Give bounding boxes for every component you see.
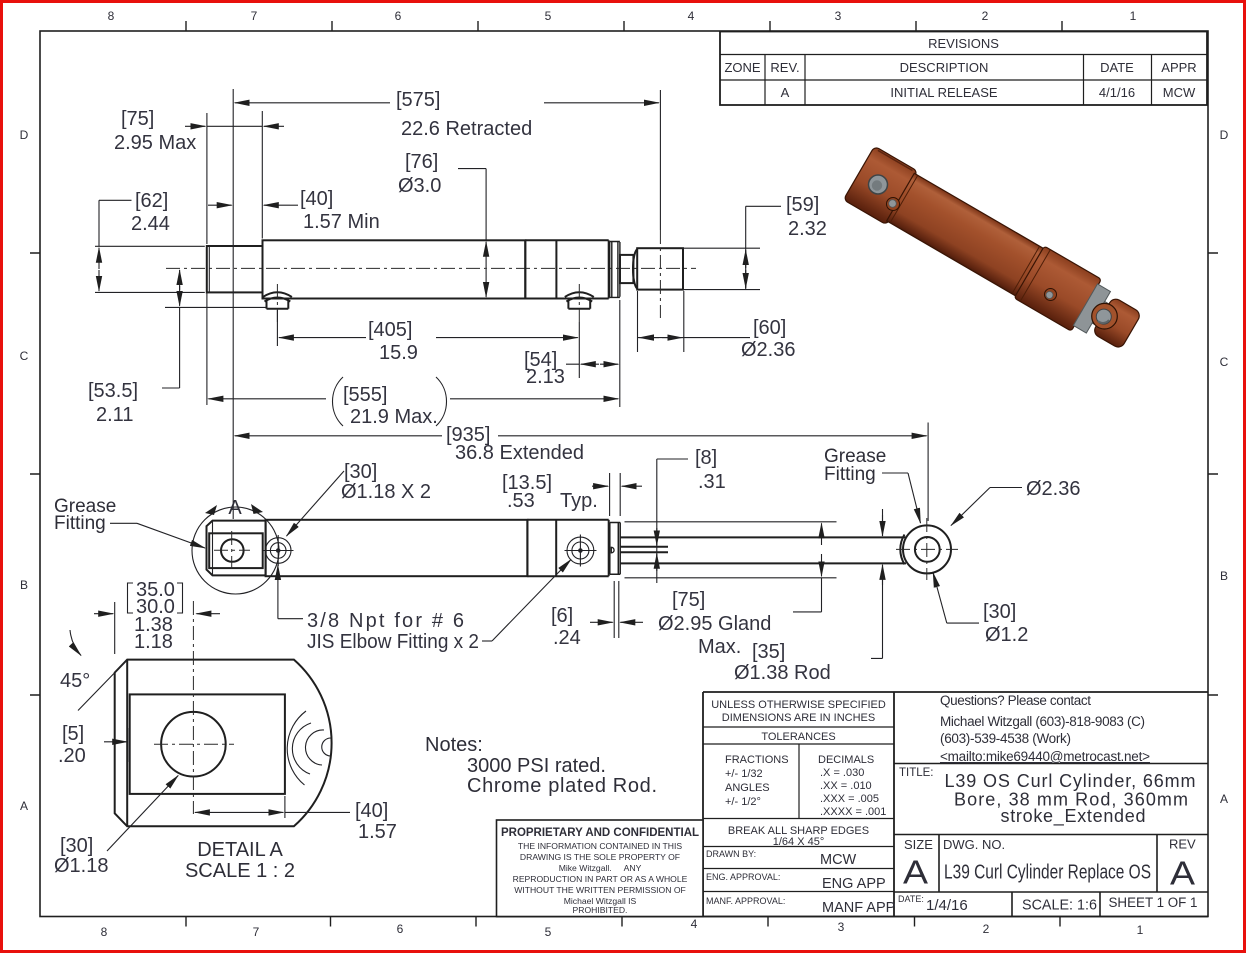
svg-text:<mailto:mike69440@metrocast.ne: <mailto:mike69440@metrocast.net> — [940, 749, 1150, 764]
dimension [935] 36.8 Extended — [235, 423, 928, 522]
port fitting right — [567, 537, 594, 564]
svg-text:D: D — [20, 128, 29, 142]
svg-text:C: C — [1220, 355, 1229, 369]
grease boss left — [263, 292, 292, 308]
svg-text:PROHIBITED.: PROHIBITED. — [573, 905, 628, 915]
3d eye hub — [1092, 297, 1142, 350]
3d gland — [1014, 246, 1101, 331]
grease port arcs — [287, 711, 306, 785]
svg-text:4: 4 — [691, 917, 698, 931]
svg-text:3: 3 — [835, 9, 842, 23]
barrel — [263, 240, 526, 298]
svg-text:Chrome plated Rod.: Chrome plated Rod. — [467, 775, 657, 797]
dimension (555) 21.9 Max — [207, 292, 618, 428]
svg-text:+/- 1/32: +/- 1/32 — [725, 768, 763, 780]
contact block — [940, 693, 1150, 764]
approvals — [706, 849, 895, 916]
svg-text:1/64 X 45°: 1/64 X 45° — [773, 836, 825, 848]
svg-text:TITLE:: TITLE: — [899, 767, 934, 779]
svg-text:1/4/16: 1/4/16 — [926, 897, 968, 914]
svg-text:[60]: [60] — [753, 317, 786, 339]
title block — [497, 692, 1209, 917]
dimension 3/8 Npt leaders — [278, 560, 571, 654]
port fitting left — [265, 538, 291, 564]
svg-text:[8]: [8] — [695, 447, 717, 469]
svg-text:REV: REV — [1169, 837, 1196, 852]
svg-text:L39 Curl Cylinder Replace OS: L39 Curl Cylinder Replace OS — [944, 862, 1151, 884]
svg-text:[35]: [35] — [752, 641, 785, 663]
svg-text:[40]: [40] — [300, 188, 333, 210]
svg-text:Ø1.18 X 2: Ø1.18 X 2 — [341, 481, 431, 503]
dimension [6] .24 — [551, 581, 643, 649]
svg-text:L39 OS Curl Cylinder, 66mm: L39 OS Curl Cylinder, 66mm — [945, 771, 1196, 791]
svg-text:JIS Elbow Fitting x 2: JIS Elbow Fitting x 2 — [307, 631, 479, 653]
svg-text:3: 3 — [838, 920, 845, 934]
svg-text:+/- 1/2°: +/- 1/2° — [725, 796, 761, 808]
notes — [425, 734, 657, 797]
svg-text:Fitting: Fitting — [54, 513, 106, 534]
svg-text:REV.: REV. — [770, 60, 799, 75]
dimension [40] 1.57 detail — [195, 796, 397, 843]
rod eye block — [637, 248, 683, 289]
svg-text:Ø2.36: Ø2.36 — [1026, 478, 1080, 500]
grease boss left centerline — [276, 284, 278, 322]
dimension [13.5] .53 Typ — [502, 472, 642, 516]
svg-text:MCW: MCW — [1163, 85, 1196, 100]
dimension [5] .20 — [58, 723, 129, 767]
svg-text:ANGLES: ANGLES — [725, 782, 770, 794]
dimension [53.5] 2.11 — [88, 270, 266, 426]
svg-text:[59]: [59] — [786, 194, 819, 216]
zone numbers bottom — [101, 917, 1144, 939]
retainer rings — [610, 242, 620, 298]
svg-text:INITIAL RELEASE: INITIAL RELEASE — [890, 85, 997, 100]
svg-text:Questions? Please contact: Questions? Please contact — [940, 693, 1091, 708]
svg-text:2.32: 2.32 — [788, 218, 827, 240]
svg-text:.XXX = .005: .XXX = .005 — [820, 793, 879, 805]
svg-text:A: A — [1220, 792, 1228, 806]
dimension [62] 2.44 — [95, 190, 205, 292]
clevis slot — [209, 533, 263, 568]
svg-text:.XXXX = .001: .XXXX = .001 — [820, 806, 886, 818]
eye centerlines — [900, 535, 904, 565]
svg-text:FRACTIONS: FRACTIONS — [725, 754, 789, 766]
svg-text:.31: .31 — [698, 471, 726, 493]
svg-text:REVISIONS: REVISIONS — [928, 36, 999, 51]
svg-text:A: A — [1170, 855, 1195, 892]
eye fillet arc — [633, 249, 637, 289]
zone ticks top — [186, 21, 1062, 31]
svg-text:Ø3.0: Ø3.0 — [398, 175, 441, 197]
detail arc arrows — [205, 505, 217, 515]
grease fitting label left — [54, 496, 205, 548]
svg-text:MCW: MCW — [820, 852, 857, 868]
svg-text:2.95 Max: 2.95 Max — [114, 132, 196, 154]
svg-text:[76]: [76] — [405, 151, 438, 173]
3d gland grease fitting — [1045, 289, 1057, 301]
dimension [30] dia 1.18 X 2 — [287, 461, 432, 536]
svg-text:8: 8 — [101, 925, 108, 939]
pin hole — [161, 712, 226, 777]
svg-text:DECIMALS: DECIMALS — [818, 754, 874, 766]
barrel section lines — [527, 520, 608, 576]
svg-text:SHEET 1 OF 1: SHEET 1 OF 1 — [1109, 895, 1198, 910]
svg-text:SIZE: SIZE — [904, 837, 933, 852]
hole centerline vertical — [192, 601, 194, 814]
svg-text:TOLERANCES: TOLERANCES — [761, 731, 835, 743]
dimension [405] 15.9 — [277, 310, 579, 378]
dimension [75] gland max — [625, 522, 837, 658]
dimension [8] .31 — [657, 447, 726, 583]
3d clevis slot shadow — [878, 150, 913, 170]
gland block extended — [608, 520, 610, 576]
svg-text:A: A — [228, 497, 242, 519]
detail circle A — [192, 507, 279, 594]
ring notch — [611, 547, 614, 553]
svg-text:MANF APP: MANF APP — [822, 900, 895, 916]
gland block — [608, 240, 610, 298]
size / dwg no / rev — [898, 837, 1198, 915]
svg-text:[30]: [30] — [344, 461, 377, 483]
svg-text:[405]: [405] — [368, 319, 412, 341]
svg-text:1.57: 1.57 — [358, 821, 397, 843]
svg-text:Ø1.18: Ø1.18 — [54, 855, 108, 877]
centerline — [166, 267, 696, 269]
revisions table — [720, 32, 1207, 106]
detail caption — [185, 839, 295, 882]
chamfer inner line — [126, 660, 128, 827]
svg-text:2: 2 — [982, 9, 989, 23]
eye vertical centerline — [659, 230, 661, 318]
svg-text:Notes:: Notes: — [425, 734, 483, 756]
svg-text:Fitting: Fitting — [824, 464, 876, 485]
svg-text:15.9: 15.9 — [379, 342, 418, 364]
zone ticks left — [30, 253, 40, 695]
svg-text:Max.: Max. — [698, 636, 741, 658]
svg-text:Mike Witzgall. ANY: Mike Witzgall. ANY — [559, 863, 642, 873]
svg-text:[75]: [75] — [672, 589, 705, 611]
svg-text:1: 1 — [1130, 9, 1137, 23]
svg-text:21.9 Max.: 21.9 Max. — [350, 406, 438, 428]
svg-text:ENG. APPROVAL:: ENG. APPROVAL: — [706, 872, 780, 882]
zone numbers top — [108, 9, 1137, 23]
svg-text:[575]: [575] — [396, 89, 440, 111]
svg-text:5: 5 — [545, 925, 552, 939]
svg-text:2.13: 2.13 — [526, 366, 565, 388]
dimension [59] 2.32 — [683, 194, 827, 290]
svg-text:A: A — [781, 85, 790, 100]
svg-text:ENG APP: ENG APP — [822, 876, 886, 892]
retainer rings extended — [610, 523, 620, 575]
proprietary box — [497, 820, 704, 917]
svg-text:Ø1.38 Rod: Ø1.38 Rod — [734, 662, 831, 684]
svg-text:[62]: [62] — [135, 190, 168, 212]
dimension 45 deg — [60, 630, 127, 711]
svg-text:.24: .24 — [553, 627, 581, 649]
grease boss right centerline — [578, 284, 580, 322]
svg-text:WITHOUT THE WRITTEN PERMISSION: WITHOUT THE WRITTEN PERMISSION OF — [514, 885, 686, 895]
3d gray rod stub — [1092, 301, 1113, 328]
svg-text:UNLESS OTHERWISE SPECIFIED: UNLESS OTHERWISE SPECIFIED — [711, 699, 886, 711]
svg-text:6: 6 — [395, 9, 402, 23]
svg-text:REPRODUCTION IN PART OR AS A W: REPRODUCTION IN PART OR AS A WHOLE — [513, 874, 688, 884]
svg-text:Ø2.36: Ø2.36 — [741, 339, 795, 361]
svg-text:4/1/16: 4/1/16 — [1099, 85, 1135, 100]
svg-text:SCALE: 1:6: SCALE: 1:6 — [1022, 897, 1097, 914]
rod eye bore — [915, 537, 940, 562]
svg-text:[5]: [5] — [62, 723, 84, 745]
svg-text:C: C — [20, 349, 29, 363]
svg-text:[555]: [555] — [343, 384, 387, 406]
3d clevis block — [843, 146, 917, 225]
svg-text:1: 1 — [1137, 923, 1144, 937]
rod relief lines — [621, 547, 669, 553]
dimension [40] 1.57 Min — [208, 188, 380, 233]
3d barrel — [887, 173, 1044, 296]
svg-text:DIMENSIONS ARE IN INCHES: DIMENSIONS ARE IN INCHES — [722, 712, 875, 724]
rod end cap — [207, 246, 263, 292]
grease boss right — [565, 292, 594, 308]
svg-text:DRAWN BY:: DRAWN BY: — [706, 849, 756, 859]
svg-text:[53.5]: [53.5] — [88, 380, 138, 402]
svg-text:7: 7 — [251, 9, 258, 23]
svg-text:Ø1.2: Ø1.2 — [985, 624, 1028, 646]
svg-text:1.57 Min: 1.57 Min — [303, 211, 380, 233]
zone letters left — [20, 128, 29, 813]
svg-text:DETAIL A: DETAIL A — [197, 839, 283, 861]
svg-text:[40]: [40] — [355, 800, 388, 822]
clevis pin hole — [221, 539, 244, 562]
rod eye outer — [903, 525, 951, 573]
svg-text:8: 8 — [108, 9, 115, 23]
hole centerline horizontal — [154, 743, 234, 745]
svg-text:[30]: [30] — [60, 835, 93, 857]
barrel extended — [266, 520, 528, 576]
dimension [76] dia 3.0 — [398, 151, 486, 297]
svg-text:2.11: 2.11 — [96, 404, 133, 426]
3d clevis pin bore — [869, 175, 888, 194]
svg-text:stroke_Extended: stroke_Extended — [1001, 806, 1146, 827]
svg-text:DATE: DATE — [1100, 60, 1134, 75]
svg-text:2.44: 2.44 — [131, 213, 170, 235]
svg-text:ZONE: ZONE — [724, 60, 760, 75]
svg-text:SCALE 1 : 2: SCALE 1 : 2 — [185, 860, 295, 882]
svg-text:Typ.: Typ. — [560, 490, 598, 512]
svg-text:THE INFORMATION CONTAINED IN T: THE INFORMATION CONTAINED IN THIS — [518, 841, 683, 851]
svg-text:APPR: APPR — [1161, 60, 1196, 75]
zone letters right — [1220, 128, 1229, 806]
svg-text:3000 PSI rated.: 3000 PSI rated. — [467, 755, 606, 777]
svg-text:A: A — [20, 799, 28, 813]
dimension [30] dia 1.18 detail — [54, 776, 178, 878]
dimension [575] 22.6 Retracted — [233, 89, 660, 519]
svg-text:5: 5 — [545, 9, 552, 23]
zone ticks bottom — [186, 917, 1060, 927]
svg-text:PROPRIETARY AND CONFIDENTIAL: PROPRIETARY AND CONFIDENTIAL — [501, 827, 699, 839]
grease fitting label right — [824, 446, 921, 523]
svg-text:D: D — [1220, 128, 1229, 142]
svg-text:(603)-539-4538 (Work): (603)-539-4538 (Work) — [940, 731, 1071, 746]
3d barrel seams — [890, 176, 1039, 294]
svg-text:[6]: [6] — [551, 605, 573, 627]
svg-text:7: 7 — [253, 925, 260, 939]
svg-text:36.8 Extended: 36.8 Extended — [455, 442, 584, 464]
svg-text:2: 2 — [983, 922, 990, 936]
svg-text:Michael Witzgall (603)-818-908: Michael Witzgall (603)-818-9083 (C) — [940, 714, 1145, 729]
svg-text:DRAWING IS THE SOLE PROPERTY O: DRAWING IS THE SOLE PROPERTY OF — [520, 852, 680, 862]
3d gray collar — [1073, 284, 1110, 333]
svg-text:DATE:: DATE: — [898, 894, 924, 904]
detail outline — [115, 660, 332, 827]
dimension [30] dia 1.2 — [933, 573, 1028, 647]
svg-text:DESCRIPTION: DESCRIPTION — [900, 60, 989, 75]
svg-text:.20: .20 — [58, 745, 86, 767]
svg-text:6: 6 — [397, 922, 404, 936]
svg-text:MANF. APPROVAL:: MANF. APPROVAL: — [706, 896, 785, 906]
dimension [35] rod — [734, 509, 883, 684]
dimension [35.0 30.0] 1.38 1.18 — [94, 579, 220, 654]
spacer section — [525, 240, 608, 298]
svg-text:.53: .53 — [507, 490, 535, 512]
zone ticks right — [1208, 253, 1218, 695]
svg-text:45°: 45° — [60, 670, 90, 692]
dimension [75] 2.95 Max — [114, 108, 284, 244]
clevis block — [207, 521, 266, 576]
svg-text:[75]: [75] — [121, 108, 154, 130]
svg-text:1.18: 1.18 — [134, 631, 173, 653]
3d rod eye face — [1092, 303, 1118, 329]
svg-text:A: A — [903, 854, 928, 891]
svg-text:DWG. NO.: DWG. NO. — [943, 837, 1005, 852]
svg-text:[30]: [30] — [983, 601, 1016, 623]
piston rod — [621, 537, 907, 563]
slot — [130, 694, 285, 794]
svg-text:4: 4 — [688, 9, 695, 23]
dimension [60] dia 2.36 — [638, 291, 796, 361]
svg-text:.X = .030: .X = .030 — [820, 767, 864, 779]
svg-text:B: B — [20, 578, 28, 592]
dia 2.36 label — [951, 478, 1080, 526]
svg-text:B: B — [1220, 569, 1228, 583]
svg-text:.XX = .010: .XX = .010 — [820, 780, 872, 792]
3d clevis grease fitting — [887, 198, 900, 211]
tolerance block text — [711, 699, 886, 848]
rod stub — [620, 255, 633, 283]
dimension [54] 2.13 — [524, 300, 620, 407]
svg-text:22.6 Retracted: 22.6 Retracted — [401, 118, 532, 140]
svg-text:Ø2.95 Gland: Ø2.95 Gland — [658, 613, 771, 635]
